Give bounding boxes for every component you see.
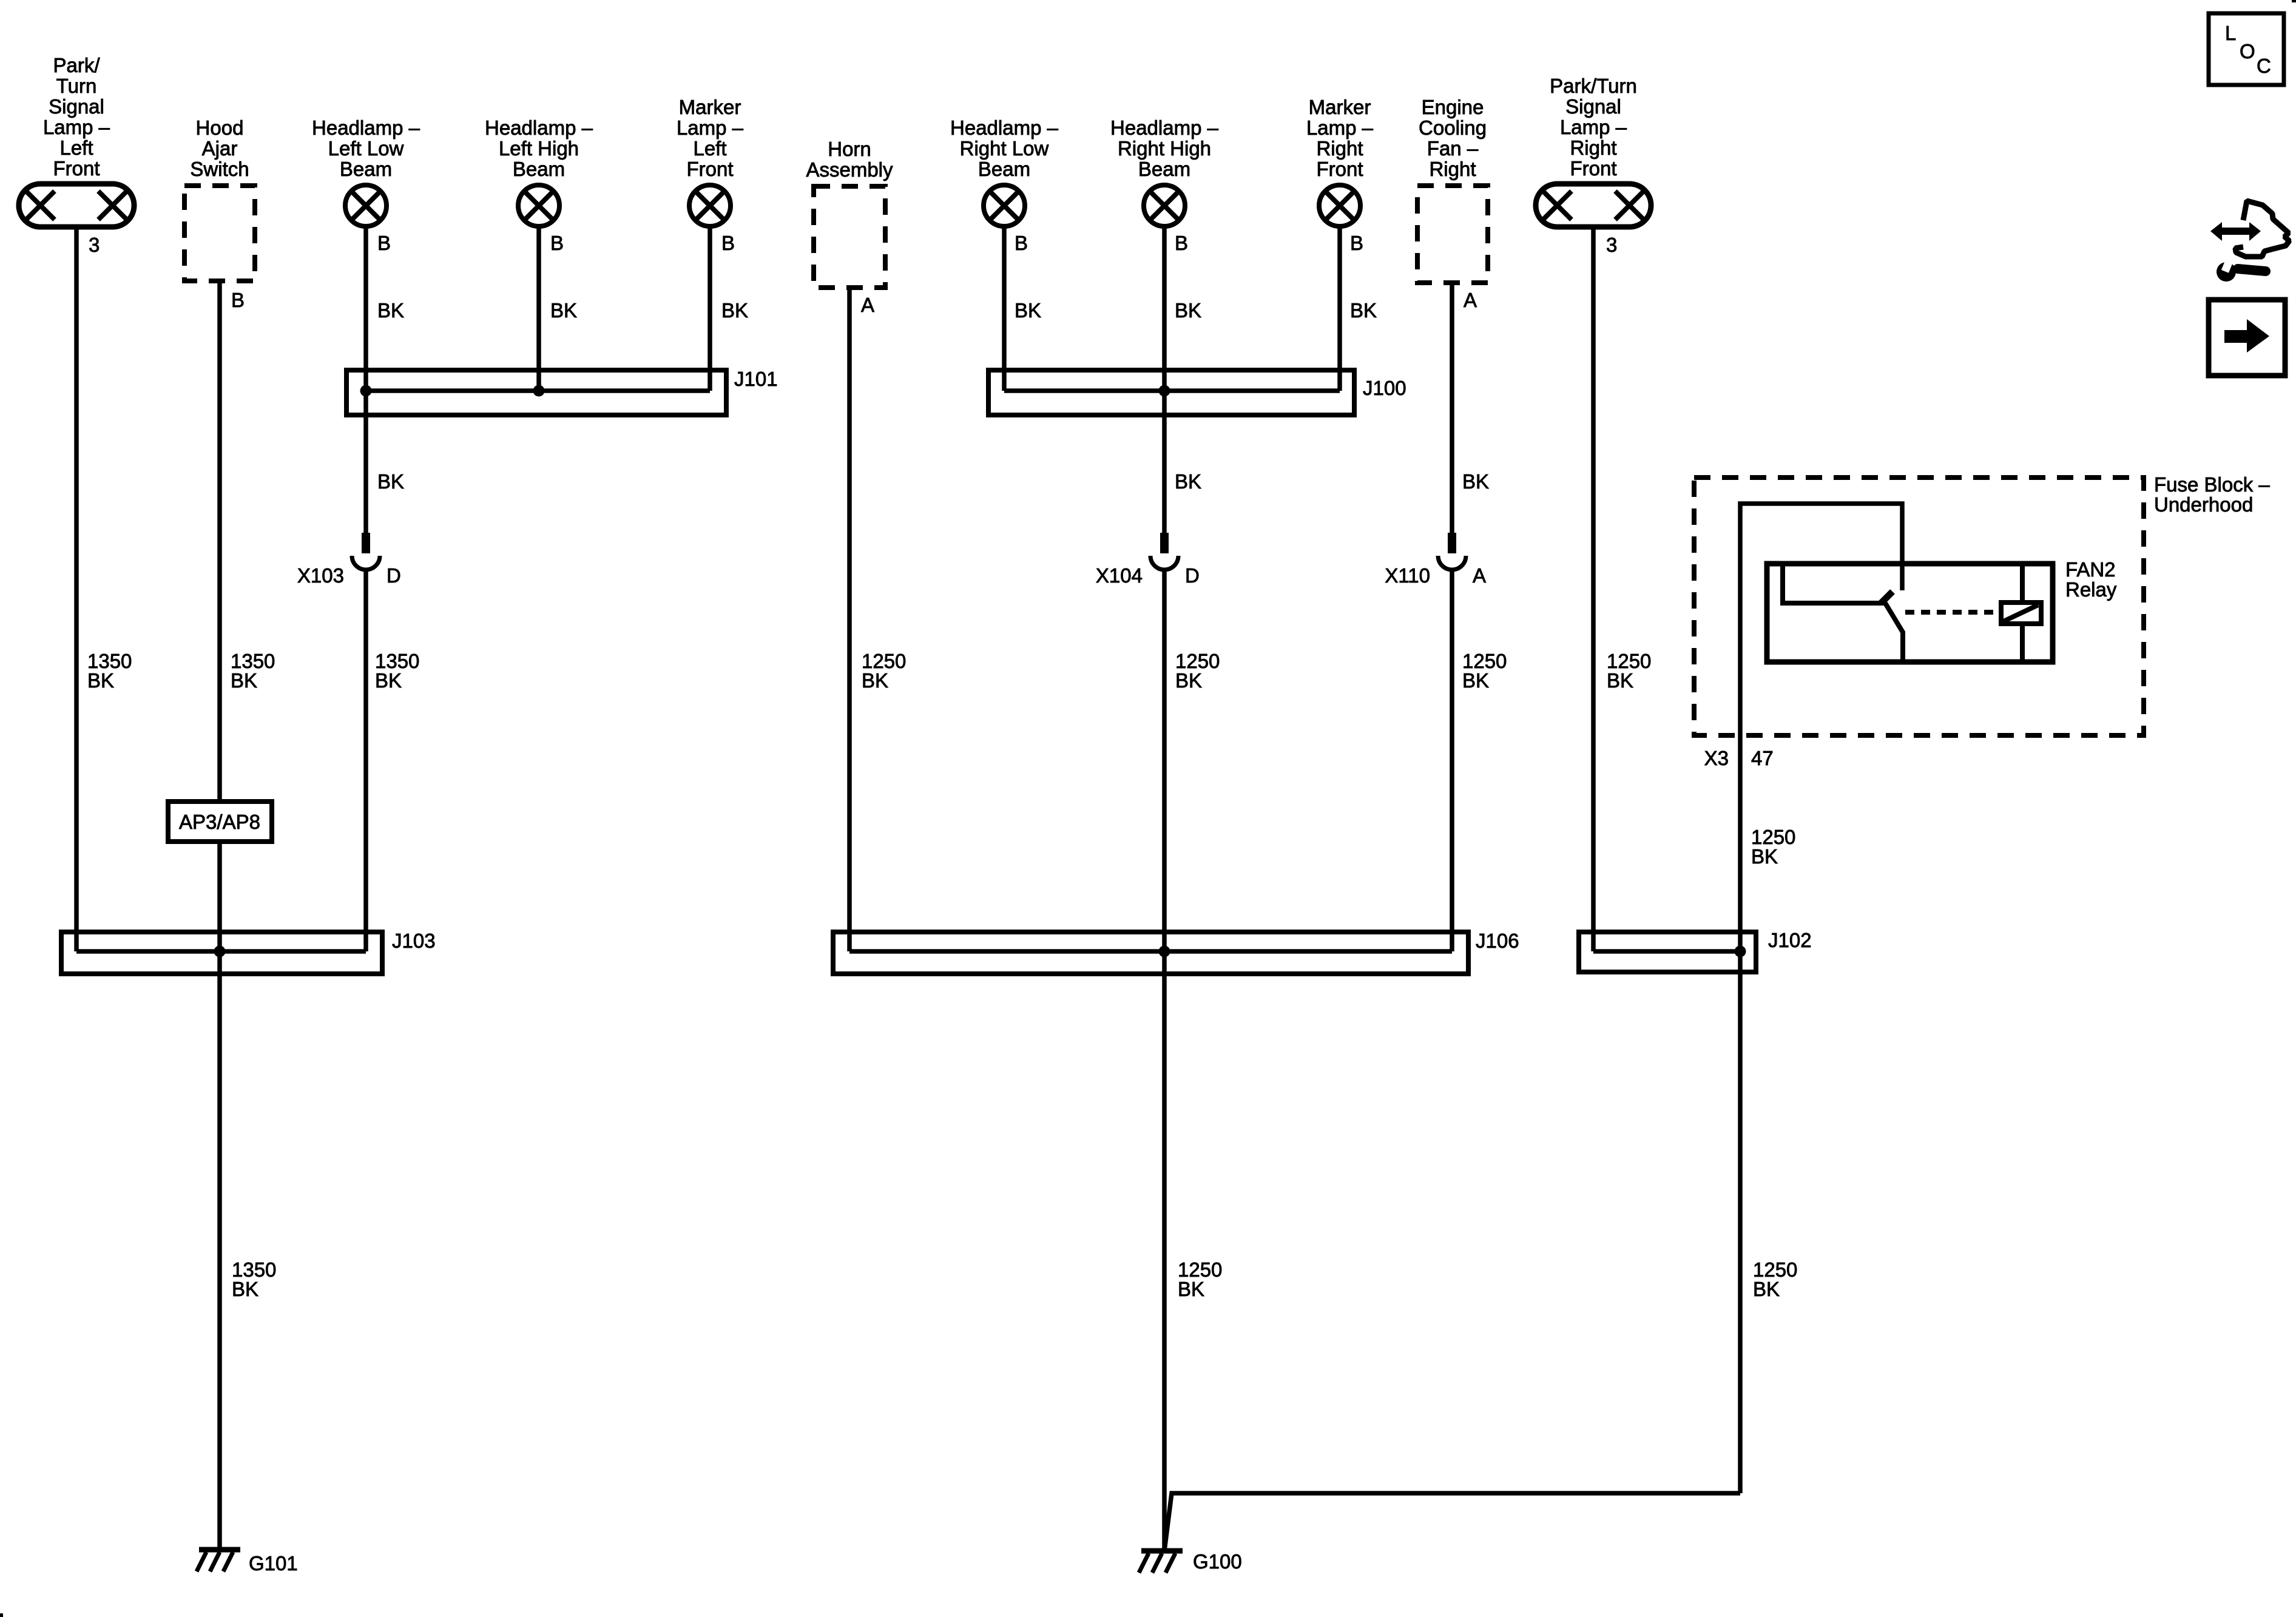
svg-text:B: B (721, 232, 735, 254)
label: Park/Turn Signal Lamp - Right Front (1550, 75, 1637, 180)
corner mark top right (2292, 0, 2296, 2)
wire label 1250 BK (1462, 650, 1507, 692)
svg-text:B: B (231, 289, 245, 311)
svg-text:3: 3 (89, 234, 100, 256)
wire: X110 down to J106 (1450, 570, 1454, 951)
svg-text:Engine: Engine (1422, 96, 1484, 118)
svg-text:J100: J100 (1363, 377, 1406, 399)
svg-text:BK: BK (87, 669, 114, 692)
svg-text:Left Low: Left Low (328, 137, 404, 160)
label: Park/Turn Signal Lamp - Left Front (43, 54, 110, 180)
wire label 1250 BK (862, 650, 906, 692)
svg-text:Front: Front (686, 158, 733, 180)
svg-text:D: D (387, 564, 401, 587)
svg-text:BK: BK (1350, 299, 1377, 322)
svg-text:Headlamp –: Headlamp – (1110, 116, 1219, 139)
svg-text:BK: BK (1175, 470, 1201, 493)
svg-text:A: A (1473, 564, 1486, 587)
svg-text:Signal: Signal (49, 95, 104, 118)
svg-text:X103: X103 (297, 564, 344, 587)
svg-text:J103: J103 (392, 930, 436, 952)
wire: engine cooling fan down to X110 (1450, 283, 1454, 534)
wire: marker right down into J100 (1337, 226, 1342, 391)
LOC legend box (2209, 13, 2284, 85)
wire label 1250 BK (lower) (1178, 1258, 1222, 1300)
lamp E1 park/turn signal lamp left front (stadium with two X bulbs) (19, 184, 134, 227)
wire: hood ajar switch down through AP3/AP8 and J103 to G101 (217, 281, 222, 1548)
connector label X103 / D (297, 564, 401, 587)
wire: right low beam down to J100 bus (1002, 226, 1007, 391)
svg-text:Left: Left (59, 137, 93, 159)
svg-text:A: A (861, 294, 874, 316)
svg-text:Fan –: Fan – (1427, 137, 1479, 160)
connector labels X3 / 47 (1704, 747, 1774, 769)
wire label 1350 BK (231, 650, 275, 692)
svg-text:AP3/AP8: AP3/AP8 (179, 811, 260, 833)
svg-text:Front: Front (53, 157, 100, 180)
svg-text:G101: G101 (249, 1552, 298, 1575)
svg-text:Assembly: Assembly (806, 158, 893, 181)
wire label 1250 BK (1175, 650, 1220, 692)
svg-text:Marker: Marker (679, 96, 741, 118)
svg-text:Ajar: Ajar (202, 137, 238, 160)
label: Headlamp - Right High Beam (1110, 116, 1219, 180)
label: Marker Lamp - Right Front (1306, 96, 1374, 180)
svg-text:X3: X3 (1704, 747, 1729, 769)
svg-text:BK: BK (1175, 669, 1202, 692)
label: Fuse Block - Underhood (2154, 473, 2270, 516)
svg-text:Underhood: Underhood (2154, 493, 2253, 516)
svg-text:Beam: Beam (1138, 158, 1190, 180)
svg-text:D: D (1185, 564, 1200, 587)
svg-text:BK: BK (231, 669, 257, 692)
lamp: headlamp left low beam (345, 185, 387, 226)
wire: horn assembly down to J106 (847, 288, 852, 951)
splice pack J100 (988, 370, 1354, 415)
connector X110 (pin and socket) (1438, 533, 1466, 570)
lamp E2 park/turn signal lamp right front (stadium with two X bulbs) (1536, 184, 1651, 227)
svg-text:BK: BK (550, 299, 577, 322)
label: Horn Assembly (806, 138, 893, 181)
svg-text:BK: BK (232, 1278, 258, 1300)
svg-text:Headlamp –: Headlamp – (485, 116, 593, 139)
wire: park/turn left lamp pin 3 down to J103 (74, 227, 79, 951)
splice pack J103 (61, 932, 382, 974)
wire label 1250 BK (1607, 650, 1651, 692)
connector label X110 / A (1385, 564, 1486, 587)
svg-text:BK: BK (721, 299, 748, 322)
svg-text:Relay: Relay (2065, 578, 2117, 601)
svg-text:B: B (377, 232, 391, 254)
svg-text:Left: Left (693, 137, 726, 160)
icon: forward arrow box (2209, 300, 2285, 376)
wire label 1250 BK (fuse block output) (1751, 826, 1795, 868)
lamp: headlamp right high beam (1144, 185, 1185, 226)
svg-text:A: A (1464, 289, 1477, 311)
label: Headlamp - Right Low Beam (950, 116, 1059, 180)
svg-text:X104: X104 (1096, 564, 1143, 587)
svg-text:Hood: Hood (196, 116, 244, 139)
svg-text:J101: J101 (734, 368, 778, 390)
connector label X104 / D (1096, 564, 1200, 587)
svg-text:Park/Turn: Park/Turn (1550, 75, 1637, 97)
svg-text:C: C (2257, 55, 2271, 77)
svg-text:Turn: Turn (56, 75, 97, 97)
svg-text:Headlamp –: Headlamp – (950, 116, 1059, 139)
svg-text:47: 47 (1751, 747, 1774, 769)
svg-text:Fuse Block –: Fuse Block – (2154, 473, 2270, 496)
svg-text:Lamp –: Lamp – (43, 116, 110, 138)
svg-text:Beam: Beam (513, 158, 565, 180)
svg-text:B: B (1175, 232, 1188, 254)
svg-text:O: O (2240, 40, 2255, 62)
svg-text:Headlamp –: Headlamp – (312, 116, 420, 139)
svg-text:G100: G100 (1193, 1550, 1242, 1573)
lamp: headlamp right low beam (984, 185, 1025, 226)
svg-text:BK: BK (1178, 1278, 1204, 1300)
svg-text:BK: BK (1175, 299, 1201, 322)
wire: marker left down into J101 (707, 226, 712, 391)
wire: bottom run from J102 branch to G100 (1164, 1493, 1740, 1551)
wire label 1350 BK (375, 650, 419, 692)
svg-text:3: 3 (1606, 234, 1617, 256)
svg-text:Marker: Marker (1309, 96, 1371, 118)
lamp: marker lamp left front (689, 185, 731, 226)
connector X104 (pin and socket) (1150, 533, 1178, 570)
connector X103 (pin and socket) (352, 533, 380, 570)
wire: X103 down to J103 (363, 570, 368, 951)
svg-text:BK: BK (1462, 470, 1489, 493)
wire: left low beam down through J101 to X103 (363, 226, 368, 534)
wire label 1250 BK (lower right) (1753, 1258, 1797, 1300)
svg-text:J102: J102 (1768, 929, 1812, 951)
svg-text:Switch: Switch (190, 158, 249, 180)
svg-text:Right High: Right High (1118, 137, 1211, 160)
label: Engine Cooling Fan - Right (1419, 96, 1487, 180)
svg-text:X110: X110 (1385, 564, 1430, 587)
wire: left high beam down to J101 bus (536, 226, 541, 391)
svg-text:FAN2: FAN2 (2065, 558, 2116, 581)
svg-text:J106: J106 (1476, 930, 1519, 952)
svg-text:BK: BK (862, 669, 888, 692)
svg-text:Horn: Horn (828, 138, 871, 160)
wire label 1350 BK (87, 650, 132, 692)
svg-text:Cooling: Cooling (1419, 116, 1487, 139)
svg-text:Signal: Signal (1565, 95, 1621, 118)
wire: right high beam down through J100 to X104 (1162, 226, 1167, 534)
label: Marker Lamp - Left Front (677, 96, 744, 180)
label: Hood Ajar Switch (190, 116, 249, 180)
label: FAN2 Relay (2065, 558, 2117, 601)
splice pack J101 (346, 370, 726, 415)
svg-text:Front: Front (1316, 158, 1363, 180)
svg-text:Front: Front (1570, 157, 1616, 180)
icon: vehicle front clip with double arrow and wrench (2210, 201, 2289, 282)
svg-text:BK: BK (1753, 1278, 1780, 1300)
svg-text:Lamp –: Lamp – (1560, 116, 1627, 138)
svg-text:Right: Right (1570, 137, 1616, 159)
svg-text:Lamp –: Lamp – (677, 116, 744, 139)
horn assembly (dashed box) (814, 186, 885, 288)
corner mark bottom left (0, 1613, 3, 1617)
svg-text:Beam: Beam (340, 158, 392, 180)
svg-text:BK: BK (377, 470, 404, 493)
wire label 1350 BK (lower) (232, 1258, 276, 1300)
ground G100 (1139, 1551, 1183, 1573)
svg-text:Park/: Park/ (53, 54, 100, 76)
FAN2 relay box (1767, 564, 2053, 662)
wire: fuse block feed (X3-47 output) (1740, 504, 1902, 1493)
svg-text:Right: Right (1316, 137, 1363, 160)
engine cooling fan right (dashed box) (1417, 186, 1488, 283)
fuse AP3/AP8 (168, 802, 272, 842)
svg-text:BK: BK (1462, 669, 1489, 692)
wire: X104 down through J106 to G100 (1162, 570, 1167, 1548)
svg-text:Right: Right (1429, 158, 1476, 180)
splice pack J102 (1579, 932, 1756, 972)
splice pack J106 (833, 932, 1468, 974)
fuse block underhood (dashed box) (1694, 478, 2144, 735)
svg-text:B: B (1015, 232, 1028, 254)
ground G101 (197, 1550, 240, 1571)
lamp: headlamp left high beam (518, 185, 559, 226)
svg-text:Beam: Beam (978, 158, 1030, 180)
svg-text:B: B (1350, 232, 1363, 254)
svg-text:B: B (550, 232, 564, 254)
label: Headlamp - Left High Beam (485, 116, 593, 180)
svg-text:BK: BK (377, 299, 404, 322)
svg-text:BK: BK (1015, 299, 1041, 322)
svg-text:Lamp –: Lamp – (1306, 116, 1374, 139)
svg-text:BK: BK (375, 669, 402, 692)
label: Headlamp - Left Low Beam (312, 116, 420, 180)
svg-text:Right Low: Right Low (960, 137, 1049, 160)
svg-text:BK: BK (1751, 845, 1778, 868)
lamp: marker lamp right front (1319, 185, 1360, 226)
svg-text:Left High: Left High (499, 137, 579, 160)
svg-text:L: L (2225, 22, 2236, 44)
svg-text:BK: BK (1607, 669, 1633, 692)
wire: park/turn right lamp down to J102 (1591, 227, 1596, 951)
switch: hood ajar switch (dashed box) (184, 186, 255, 281)
